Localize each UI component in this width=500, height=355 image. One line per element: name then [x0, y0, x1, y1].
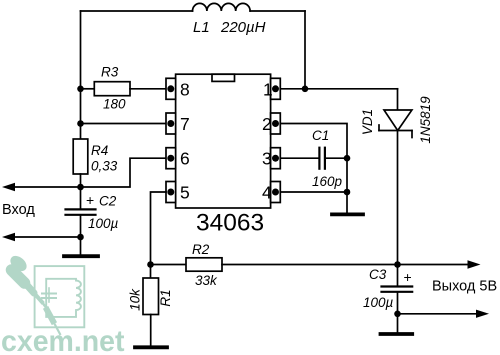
node pin4 [344, 189, 351, 196]
wire pin6 elbow [81, 158, 167, 187]
ground under R1 [135, 345, 167, 349]
node C1 right [344, 155, 351, 162]
wire C3 down [397, 293, 399, 332]
watermark logo cxem.net [1, 254, 125, 355]
svg-text:180: 180 [103, 97, 126, 112]
pin 5 [166, 182, 176, 203]
pin 3 [271, 148, 281, 169]
node left R3 [77, 86, 84, 93]
notch [212, 74, 235, 81]
wire R4 to input node [80, 174, 82, 187]
pin 7 [166, 113, 176, 134]
svg-text:2: 2 [262, 114, 272, 134]
svg-text:6: 6 [180, 149, 190, 169]
svg-text:Выход 5В: Выход 5В [432, 279, 497, 295]
wire output arrow top [398, 264, 470, 266]
svg-text:R4: R4 [91, 143, 108, 158]
wire to pin7 [81, 123, 167, 125]
resistor R1 [150, 265, 152, 279]
wire output arrow bottom [398, 313, 478, 315]
wire C2 down [80, 216, 82, 255]
svg-text:1N5819: 1N5819 [418, 96, 433, 144]
wire R3 to pin8 [130, 88, 166, 90]
capacitor C2 [80, 187, 82, 209]
wire left vertical seg3 [80, 124, 82, 140]
svg-text:220µH: 220µH [220, 19, 266, 36]
node R1 R2 [147, 261, 154, 268]
node input [77, 184, 84, 191]
wire pin2 elbow [280, 124, 347, 159]
wire top rail right [250, 10, 305, 12]
wire node to R2 [151, 264, 187, 266]
svg-text:33k: 33k [195, 273, 218, 288]
resistor R4 [73, 139, 88, 174]
wire diode top [397, 89, 399, 110]
node output top [394, 261, 401, 268]
svg-text:C1: C1 [312, 128, 329, 143]
wire right vertical to pin1 row [304, 11, 306, 89]
pin 2 [271, 113, 281, 134]
node input lower [77, 234, 84, 241]
svg-text:L1: L1 [193, 19, 210, 36]
diode VD1 1N5819 [384, 110, 412, 131]
svg-text:R1: R1 [158, 289, 173, 306]
wire pin4 [280, 191, 347, 193]
wire left vertical seg2 [80, 89, 82, 124]
pin 6 [166, 148, 176, 169]
svg-text:cxem.net: cxem.net [1, 325, 125, 355]
svg-text:Вход: Вход [2, 202, 35, 218]
op-amp/IC U1 34063 body [176, 74, 271, 208]
svg-text:R2: R2 [192, 242, 210, 257]
svg-text:34063: 34063 [196, 210, 264, 237]
resistor R3 [94, 82, 130, 96]
svg-text:C3: C3 [369, 267, 387, 282]
wire down to pin4 row [346, 158, 348, 192]
capacitor C1 [318, 148, 320, 169]
ground under C3 [381, 332, 413, 336]
svg-text:10k: 10k [128, 288, 143, 311]
node pin1 top rail [302, 86, 309, 93]
wire pin5 elbow down [151, 192, 167, 265]
svg-text:C2: C2 [99, 194, 117, 209]
inductor L1 [193, 3, 251, 11]
pin 8 [166, 78, 176, 99]
svg-text:3: 3 [262, 149, 272, 169]
svg-text:0,33: 0,33 [91, 159, 118, 174]
resistor R2 [186, 258, 222, 271]
wire pin3 to C1 [280, 157, 319, 159]
wire diode down to output node [397, 131, 399, 265]
wire input arrow top [13, 186, 81, 188]
svg-text:5: 5 [180, 183, 190, 203]
wire left vertical upper [80, 11, 82, 89]
svg-text:R3: R3 [101, 65, 119, 80]
wire node to R3 [81, 88, 95, 90]
wire pin1 row [280, 88, 397, 90]
ground under C2 [64, 254, 98, 258]
svg-text:8: 8 [180, 79, 190, 99]
pin 4 [271, 182, 281, 203]
svg-text:4: 4 [262, 183, 272, 203]
svg-text:100µ: 100µ [88, 216, 119, 231]
ground under C1 [332, 212, 363, 216]
svg-text:7: 7 [180, 114, 190, 134]
svg-text:+: + [86, 192, 94, 208]
node output bottom [394, 311, 401, 318]
wire to ground [346, 192, 348, 213]
svg-text:1: 1 [263, 79, 273, 99]
pin 1 [271, 78, 281, 99]
node left pin7 row [77, 120, 84, 127]
svg-text:+: + [404, 269, 412, 285]
wire R1 to ground [150, 315, 152, 346]
wire top rail left [81, 10, 193, 12]
svg-text:VD1: VD1 [360, 109, 375, 135]
wire R2 to output node [222, 264, 398, 266]
svg-text:100µ: 100µ [363, 295, 394, 310]
wire C1 to node [325, 157, 347, 159]
svg-text:160p: 160p [312, 174, 343, 189]
wire input arrow bottom [13, 236, 81, 238]
capacitor C3 [397, 265, 399, 286]
